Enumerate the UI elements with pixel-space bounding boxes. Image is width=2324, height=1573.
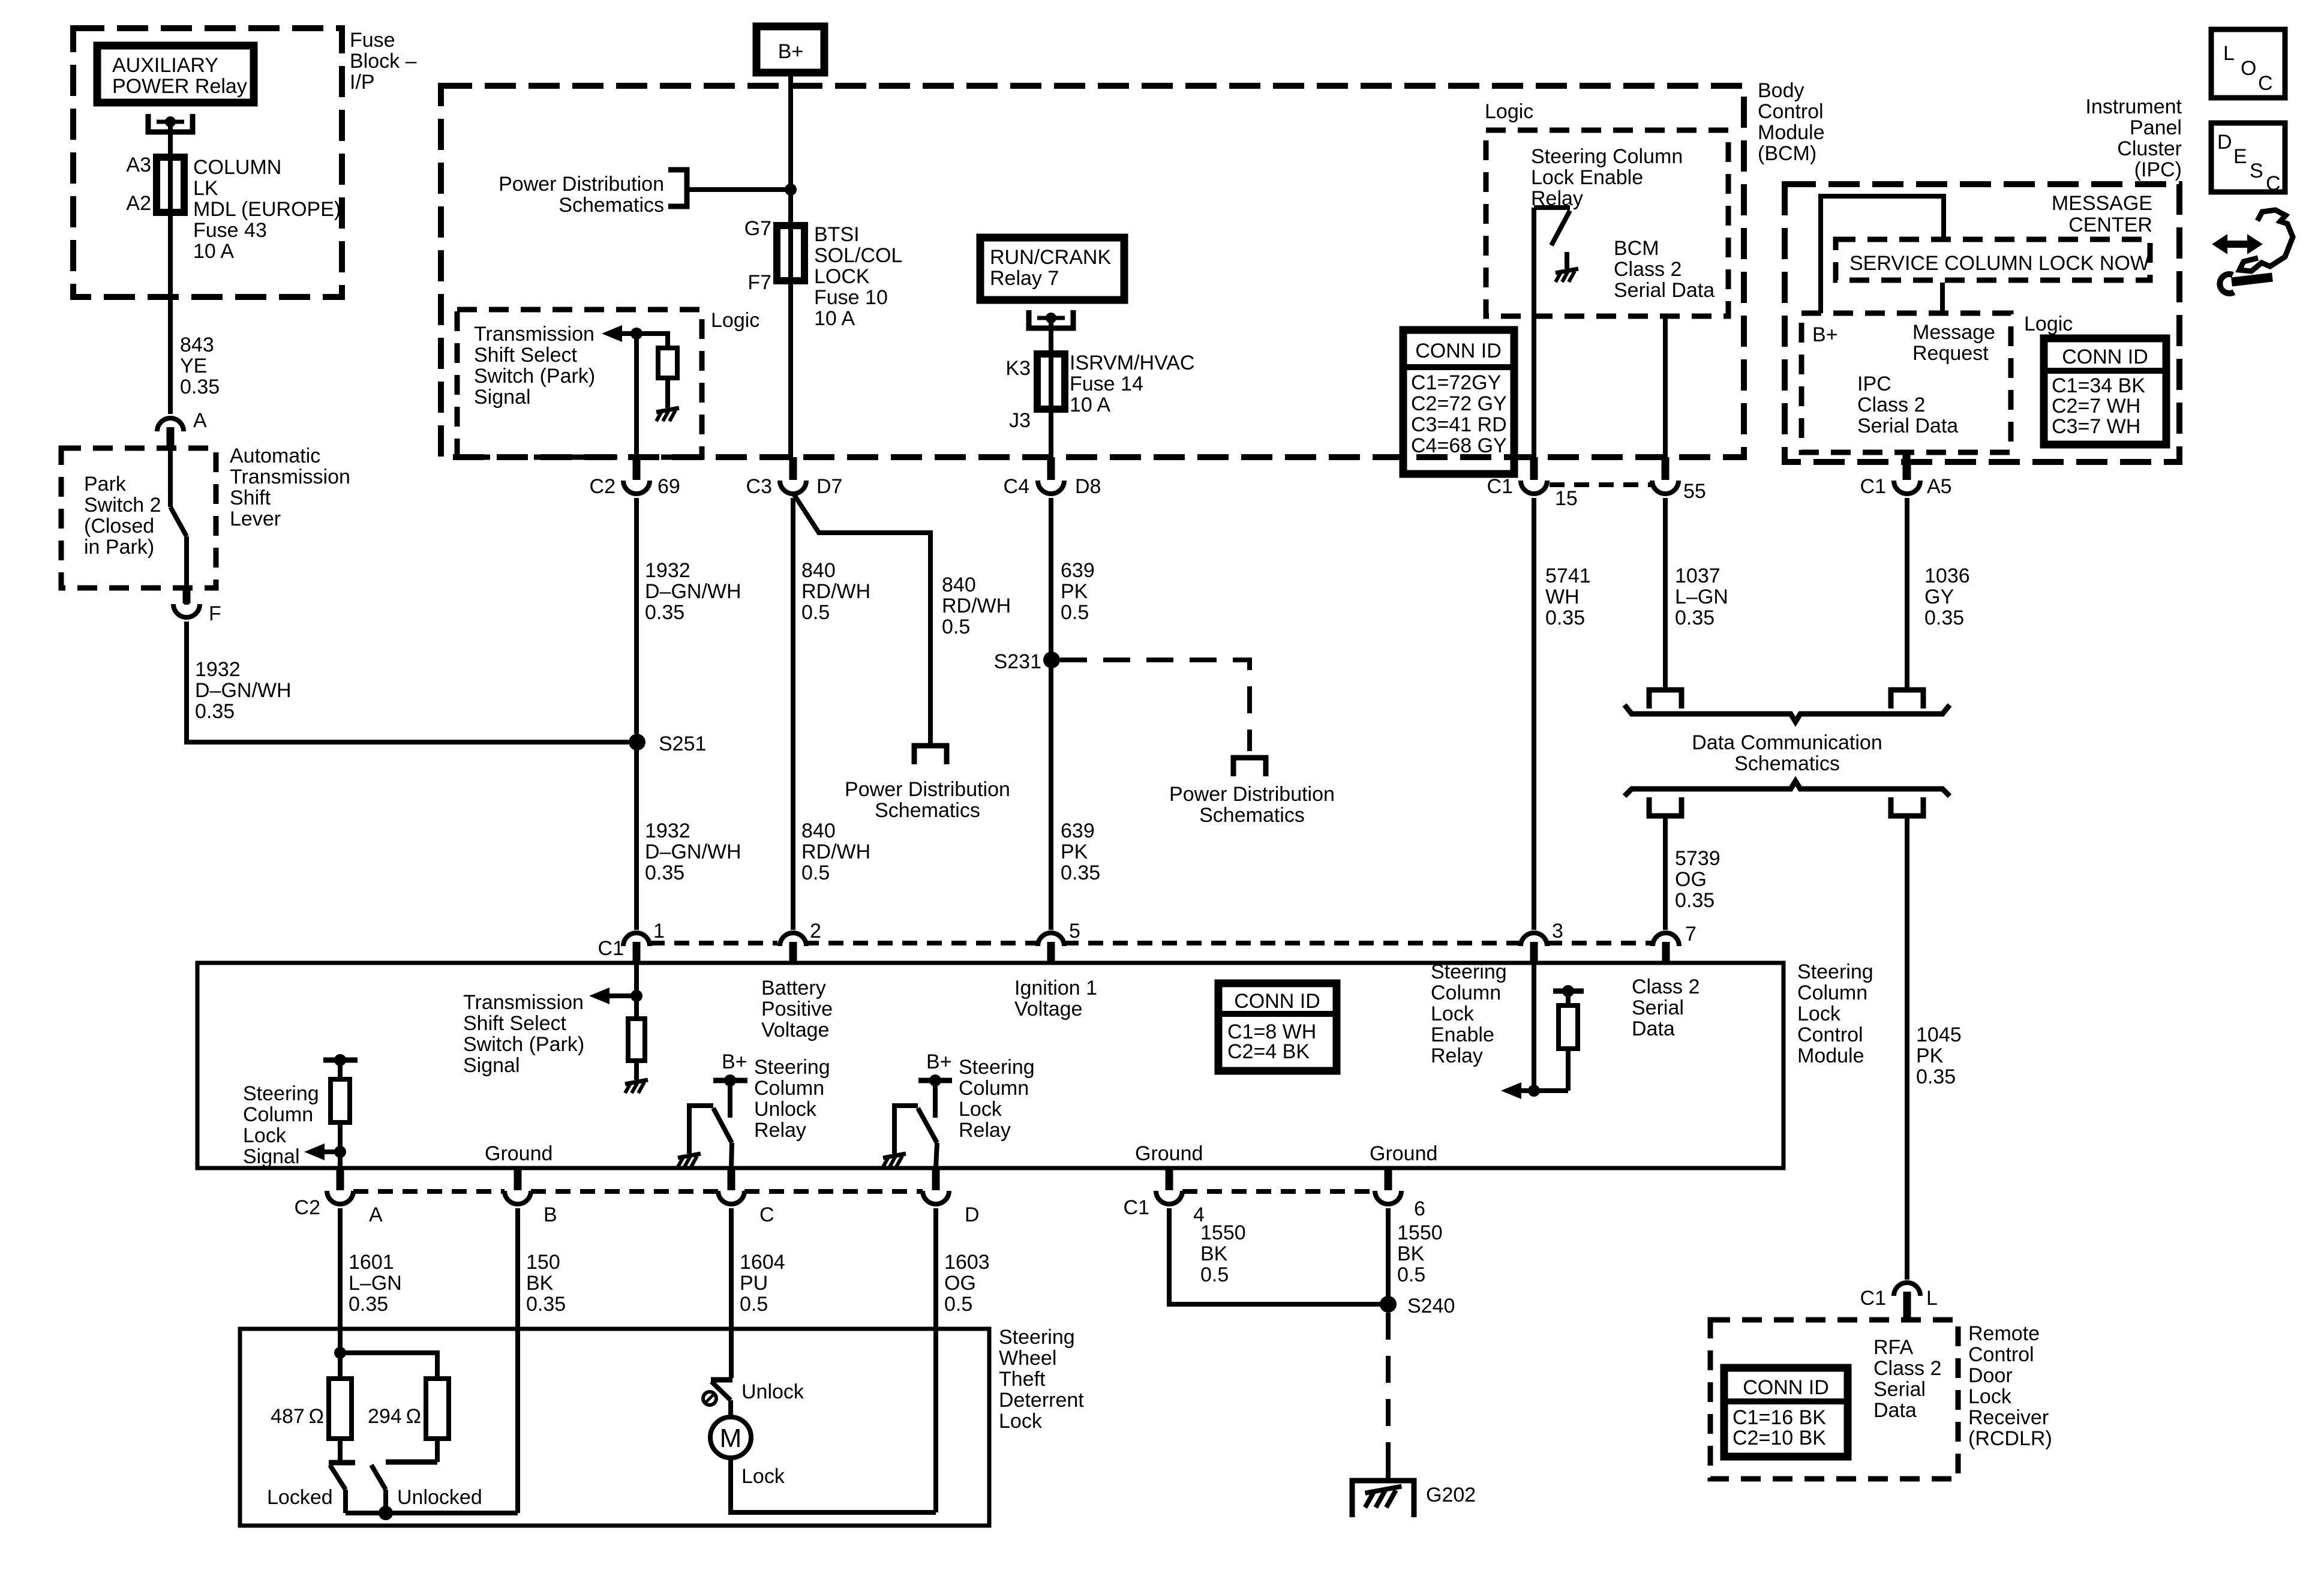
svg-text:POWER Relay: POWER Relay xyxy=(112,75,247,98)
svg-text:C1: C1 xyxy=(1124,1196,1149,1219)
svg-text:Relay 7: Relay 7 xyxy=(990,267,1059,290)
svg-text:C: C xyxy=(2258,72,2273,95)
svg-text:Logic: Logic xyxy=(711,309,759,332)
svg-text:1604: 1604 xyxy=(740,1251,785,1274)
wire resistor to pin A xyxy=(338,1122,343,1168)
svg-text:Class 2: Class 2 xyxy=(1873,1357,1941,1380)
svg-text:C3: C3 xyxy=(746,475,772,498)
svg-text:Switch (Park): Switch (Park) xyxy=(474,365,595,388)
wire 1932 D-GN/WH 0.35 (lower) xyxy=(634,742,639,930)
component box Steering Column Lock Control Module xyxy=(197,963,1783,1168)
svg-text:1550: 1550 xyxy=(1200,1221,1246,1244)
wire to module pull-up resistor xyxy=(634,996,639,1019)
svg-text:Unlocked: Unlocked xyxy=(397,1486,482,1509)
svg-text:Data Communication: Data Communication xyxy=(1692,731,1882,754)
svg-text:C2=7 WH: C2=7 WH xyxy=(2052,395,2140,418)
svg-text:C1=72GY: C1=72GY xyxy=(1411,371,1501,394)
svg-text:0.35: 0.35 xyxy=(526,1293,566,1316)
svg-text:C2=72 GY: C2=72 GY xyxy=(1411,392,1507,415)
svg-text:1037: 1037 xyxy=(1675,565,1721,587)
svg-text:(IPC): (IPC) xyxy=(2134,158,2182,181)
wire park switch to connector F xyxy=(184,536,189,605)
wire 150 BK 0.35 xyxy=(515,1208,520,1513)
svg-text:C: C xyxy=(759,1203,774,1226)
connector pair dash 15-55 xyxy=(1550,482,1651,487)
terminal 5739 from data communication xyxy=(1649,797,1682,816)
relay contact Steering Column Unlock Relay xyxy=(689,1106,713,1154)
svg-text:Serial Data: Serial Data xyxy=(1614,279,1715,302)
svg-text:PK: PK xyxy=(1061,580,1088,603)
svg-text:Request: Request xyxy=(1912,342,1989,365)
svg-text:Serial: Serial xyxy=(1632,996,1684,1019)
svg-text:PU: PU xyxy=(740,1272,768,1295)
svg-text:5741: 5741 xyxy=(1545,565,1591,587)
fixed contact unlocked xyxy=(386,1460,437,1465)
terminal 1045 from data communication xyxy=(1891,797,1923,816)
svg-text:69: 69 xyxy=(657,475,680,498)
symbol DESC box xyxy=(2211,123,2285,192)
symbol no-connect circle xyxy=(703,1392,716,1405)
svg-text:1932: 1932 xyxy=(645,819,690,842)
dashed wire S240 to G202 xyxy=(1386,1313,1391,1473)
svg-text:ISRVM/HVAC: ISRVM/HVAC xyxy=(1070,352,1194,374)
svg-text:S: S xyxy=(2250,160,2263,182)
resistor 487 ohm xyxy=(329,1379,352,1439)
svg-text:Theft: Theft xyxy=(999,1368,1046,1391)
svg-text:Relay: Relay xyxy=(1431,1044,1483,1067)
wire unlock relay to pin C xyxy=(731,1143,732,1168)
connector pin B xyxy=(514,1168,522,1190)
svg-text:Schematics: Schematics xyxy=(559,194,664,217)
connector C1 pin 1 xyxy=(623,933,650,946)
svg-text:LK: LK xyxy=(193,177,218,200)
ground unlock relay armature xyxy=(678,1154,701,1167)
ground BCM logic xyxy=(656,408,679,421)
svg-text:Steering: Steering xyxy=(959,1056,1035,1079)
svg-text:E: E xyxy=(2233,145,2247,168)
svg-text:0.35: 0.35 xyxy=(180,376,220,398)
svg-text:GY: GY xyxy=(1924,586,1954,608)
component box Steering Wheel Theft Deterrent Lock xyxy=(240,1329,989,1526)
svg-text:1: 1 xyxy=(653,920,665,942)
svg-text:BK: BK xyxy=(1397,1242,1425,1265)
svg-text:B+: B+ xyxy=(926,1050,952,1073)
svg-text:Steering Column: Steering Column xyxy=(1531,145,1683,168)
power node B+ unlock relay xyxy=(713,1078,747,1083)
wire resistor to ground xyxy=(665,378,670,408)
wire 1037 L-GN 0.35 xyxy=(1663,498,1668,690)
svg-text:Lock: Lock xyxy=(999,1410,1043,1433)
svg-text:Instrument: Instrument xyxy=(2085,95,2182,118)
svg-text:0.35: 0.35 xyxy=(1924,607,1964,629)
relay contact Steering Column Lock Relay xyxy=(894,1106,918,1154)
svg-text:OG: OG xyxy=(1675,868,1707,891)
node lock signal junction xyxy=(334,1146,346,1158)
wire 639 PK 0.5 xyxy=(1049,498,1053,930)
svg-text:IPC: IPC xyxy=(1857,373,1891,395)
svg-text:B+: B+ xyxy=(722,1050,747,1073)
svg-text:D8: D8 xyxy=(1075,475,1101,498)
component box Fuse Block - I/P (dashed) xyxy=(73,28,342,297)
svg-text:D7: D7 xyxy=(816,475,842,498)
svg-text:0.5: 0.5 xyxy=(944,1293,972,1316)
svg-text:LOCK: LOCK xyxy=(814,265,870,288)
svg-text:C1: C1 xyxy=(1860,475,1886,498)
svg-text:CENTER: CENTER xyxy=(2068,214,2152,236)
svg-text:Column: Column xyxy=(1797,981,1867,1004)
node S251 xyxy=(629,734,645,751)
svg-text:Shift Select: Shift Select xyxy=(474,344,578,367)
svg-text:Power Distribution: Power Distribution xyxy=(1169,783,1335,806)
terminal 1036 to data communication xyxy=(1891,690,1923,709)
node lock signal rail xyxy=(334,1054,346,1066)
svg-text:Logic: Logic xyxy=(1485,100,1533,123)
svg-text:C4=68 GY: C4=68 GY xyxy=(1411,434,1507,457)
svg-text:L–GN: L–GN xyxy=(349,1272,402,1295)
svg-text:A5: A5 xyxy=(1927,475,1952,498)
svg-text:Relay: Relay xyxy=(754,1119,806,1142)
component box RCDLR (dashed) xyxy=(1710,1320,1958,1479)
connector C4 pin D8 xyxy=(1047,457,1055,480)
svg-text:Control: Control xyxy=(1968,1343,2034,1366)
svg-text:Lock: Lock xyxy=(1431,1002,1475,1025)
svg-text:YE: YE xyxy=(180,355,207,377)
svg-text:Steering: Steering xyxy=(1797,960,1873,983)
svg-text:Remote: Remote xyxy=(1968,1322,2040,1345)
svg-text:C2=4 BK: C2=4 BK xyxy=(1227,1040,1310,1063)
connector pin D xyxy=(932,1168,940,1190)
component box Body Control Module BCM (dashed) xyxy=(441,86,1744,457)
fuse BTSI SOL/COL LOCK Fuse 10 10A xyxy=(777,226,804,281)
icon vehicle with wrench xyxy=(2213,210,2293,293)
wire junction to 294 branch xyxy=(340,1353,437,1379)
svg-text:Lever: Lever xyxy=(230,508,281,530)
svg-text:B: B xyxy=(544,1203,557,1226)
wire IPC serial data out xyxy=(1903,452,1911,480)
svg-text:7: 7 xyxy=(1685,923,1697,945)
wire B+ fixed contact (lock) xyxy=(933,1080,938,1118)
connector C2 pin A xyxy=(337,1168,344,1190)
svg-text:Class 2: Class 2 xyxy=(1632,975,1700,998)
connector pin 55 xyxy=(1662,457,1670,480)
switch blade Locked xyxy=(330,1465,346,1490)
wire 5739 OG 0.35 xyxy=(1663,816,1668,930)
wire junction to 487 resistor xyxy=(338,1353,343,1379)
svg-text:6: 6 xyxy=(1414,1197,1425,1220)
node S231 xyxy=(1043,652,1060,668)
svg-text:639: 639 xyxy=(1061,819,1095,842)
svg-text:SERVICE COLUMN LOCK NOW: SERVICE COLUMN LOCK NOW xyxy=(1849,252,2149,275)
svg-text:MESSAGE: MESSAGE xyxy=(2052,192,2152,215)
svg-text:0.5: 0.5 xyxy=(1200,1263,1229,1286)
svg-text:BCM: BCM xyxy=(1614,237,1659,260)
svg-text:Lock: Lock xyxy=(1968,1385,2012,1408)
svg-text:C2: C2 xyxy=(295,1196,320,1219)
wire to power distribution bracket xyxy=(687,187,791,192)
relay contact RUN/CRANK Relay 7 xyxy=(1029,310,1073,328)
fixed contact locked xyxy=(329,1460,355,1466)
svg-text:A: A xyxy=(369,1203,383,1226)
svg-text:Class 2: Class 2 xyxy=(1614,258,1682,281)
relay contact AUXILIARY POWER Relay xyxy=(148,114,193,132)
svg-text:C4: C4 xyxy=(1004,475,1029,498)
svg-text:Data: Data xyxy=(1632,1017,1675,1040)
switch blade Unlocked xyxy=(371,1465,386,1490)
component box BCM Logic (dashed) xyxy=(1486,130,1728,316)
svg-text:Transmission: Transmission xyxy=(463,991,584,1014)
svg-text:Power Distribution: Power Distribution xyxy=(845,778,1010,801)
motor M xyxy=(710,1417,751,1458)
node unlocked switch junction xyxy=(379,1506,393,1520)
wire switch to motor xyxy=(728,1400,733,1418)
svg-text:Column: Column xyxy=(1431,981,1501,1004)
svg-text:Unlock: Unlock xyxy=(754,1098,817,1121)
svg-text:RFA: RFA xyxy=(1873,1336,1913,1359)
svg-text:B+: B+ xyxy=(1812,323,1838,346)
wire 1550 BK 0.5 (pin 6) xyxy=(1386,1208,1391,1304)
svg-text:150: 150 xyxy=(526,1251,560,1274)
node transmission signal junction xyxy=(630,328,642,340)
svg-text:Lock: Lock xyxy=(1797,1002,1841,1025)
wire enable relay to connector C1 15 xyxy=(1532,208,1536,457)
svg-text:Shift: Shift xyxy=(230,487,271,509)
svg-text:2: 2 xyxy=(810,920,821,942)
svg-text:J3: J3 xyxy=(1009,409,1031,432)
svg-text:Schematics: Schematics xyxy=(875,799,980,822)
wire lock relay to pin D xyxy=(936,1143,937,1168)
rail bar lock signal xyxy=(323,1058,358,1063)
svg-text:0.35: 0.35 xyxy=(645,861,684,884)
brace data communication upper xyxy=(1625,705,1950,722)
svg-text:Transmission: Transmission xyxy=(230,466,350,488)
svg-text:MDL (EUROPE): MDL (EUROPE) xyxy=(193,198,341,221)
svg-text:Park: Park xyxy=(84,473,127,496)
relay K AUXILIARY POWER Relay label box xyxy=(97,46,254,103)
svg-text:1550: 1550 xyxy=(1397,1221,1443,1244)
connector C1 pin L xyxy=(1894,1283,1920,1296)
svg-text:10 A: 10 A xyxy=(193,240,234,263)
svg-text:1045: 1045 xyxy=(1916,1023,1962,1046)
svg-text:in Park): in Park) xyxy=(84,536,154,559)
svg-text:Column: Column xyxy=(754,1077,824,1100)
svg-text:Ground: Ground xyxy=(1135,1142,1203,1165)
connector pin 5 xyxy=(1038,933,1064,946)
svg-text:BK: BK xyxy=(526,1272,554,1295)
switch blade motor unlock xyxy=(711,1382,731,1400)
symbol LOC box xyxy=(2211,29,2285,98)
wire resistor to module ground xyxy=(634,1061,639,1080)
svg-text:1601: 1601 xyxy=(349,1251,394,1274)
svg-text:A3: A3 xyxy=(126,154,151,176)
svg-text:Control: Control xyxy=(1797,1023,1863,1046)
wire message request xyxy=(1940,283,1945,313)
connector row dash (module top) xyxy=(650,941,777,945)
ground lock relay armature xyxy=(883,1154,906,1167)
svg-text:Ground: Ground xyxy=(1370,1142,1437,1165)
node S240 xyxy=(1380,1296,1397,1313)
svg-text:M: M xyxy=(720,1424,742,1453)
resistor steering column lock signal xyxy=(331,1079,350,1122)
wire 1601 L-GN 0.35 xyxy=(338,1208,343,1353)
fuse F43 COLUMN LK MDL (EUROPE) Fuse 43 10A xyxy=(157,157,184,212)
svg-text:Lock: Lock xyxy=(243,1124,287,1147)
svg-text:Power Distribution: Power Distribution xyxy=(499,173,664,196)
svg-text:Fuse 10: Fuse 10 xyxy=(814,286,888,309)
ground module logic xyxy=(625,1080,648,1093)
svg-text:0.35: 0.35 xyxy=(1675,889,1715,912)
svg-text:F7: F7 xyxy=(747,271,771,294)
svg-text:Steering: Steering xyxy=(754,1056,830,1079)
brace data communication lower xyxy=(1625,781,1950,796)
svg-text:Lock Enable: Lock Enable xyxy=(1531,166,1643,189)
svg-text:BK: BK xyxy=(1200,1242,1228,1265)
resistor BCM park signal pull-up xyxy=(658,348,677,378)
ground enable relay contact xyxy=(1556,269,1578,282)
svg-text:Data: Data xyxy=(1873,1399,1917,1422)
svg-text:Unlock: Unlock xyxy=(741,1380,804,1403)
svg-text:0.5: 0.5 xyxy=(1397,1263,1425,1286)
ground G202 xyxy=(1386,1463,1391,1481)
svg-text:0.35: 0.35 xyxy=(645,601,684,624)
wire 1045 PK 0.35 xyxy=(1905,816,1909,1280)
svg-text:L: L xyxy=(1926,1287,1938,1310)
svg-text:Lock: Lock xyxy=(741,1465,785,1488)
wire 1932 D-GN/WH 0.35 to S251 xyxy=(187,622,629,742)
svg-text:Fuse 14: Fuse 14 xyxy=(1070,373,1143,395)
connector A xyxy=(157,418,184,431)
svg-text:10 A: 10 A xyxy=(1070,394,1110,416)
relay contact Steering Column Lock Enable Relay xyxy=(1534,205,1570,210)
svg-text:K3: K3 xyxy=(1005,357,1031,380)
svg-text:F: F xyxy=(209,602,221,625)
svg-text:Column: Column xyxy=(959,1077,1029,1100)
wire through BTSI fuse xyxy=(788,226,793,280)
svg-text:S231: S231 xyxy=(994,650,1041,673)
svg-text:Message: Message xyxy=(1912,321,1995,344)
svg-text:Transmission: Transmission xyxy=(474,323,594,346)
svg-text:C1=34 BK: C1=34 BK xyxy=(2052,374,2145,397)
wire aux relay to fuse 43 xyxy=(168,122,173,157)
svg-text:Positive: Positive xyxy=(761,998,833,1020)
wire 1603 OG 0.5 xyxy=(933,1208,938,1512)
svg-text:0.35: 0.35 xyxy=(349,1293,388,1316)
svg-text:Cluster: Cluster xyxy=(2117,137,2182,160)
svg-text:840: 840 xyxy=(801,819,836,842)
wire 840 RD/WH 0.5 xyxy=(791,498,795,930)
svg-text:0.5: 0.5 xyxy=(942,616,970,638)
wire 843 YE 0.35 xyxy=(168,212,173,414)
svg-text:0.35: 0.35 xyxy=(1061,861,1100,884)
wire 1550 BK 0.5 (pin 4) xyxy=(1169,1208,1388,1304)
table CONN ID (IPC) xyxy=(2044,338,2166,445)
connector C1 pin 4 xyxy=(1166,1168,1173,1190)
svg-text:Lock: Lock xyxy=(959,1098,1002,1121)
relay RUN/CRANK Relay 7 label box xyxy=(980,238,1124,300)
svg-text:WH: WH xyxy=(1545,586,1580,608)
svg-text:I/P: I/P xyxy=(350,71,375,94)
wire resistor down (enable) xyxy=(1566,1049,1571,1091)
svg-text:Ground: Ground xyxy=(485,1142,553,1165)
svg-text:Steering: Steering xyxy=(243,1082,319,1105)
node enable relay junction xyxy=(1528,1085,1540,1097)
svg-text:Module: Module xyxy=(1758,121,1825,144)
svg-text:D: D xyxy=(2217,131,2232,154)
arrow steering column lock signal xyxy=(304,1143,325,1160)
svg-text:0.5: 0.5 xyxy=(740,1293,768,1316)
connector pin C xyxy=(728,1168,735,1190)
svg-text:Receiver: Receiver xyxy=(1968,1406,2049,1429)
wire into park switch xyxy=(168,448,173,507)
svg-text:Voltage: Voltage xyxy=(1014,998,1082,1020)
wire B+ fixed contact xyxy=(728,1080,732,1118)
wire B+ to message center xyxy=(1821,196,1944,313)
svg-text:OG: OG xyxy=(944,1272,976,1295)
wire B+ feed down xyxy=(788,73,793,226)
svg-text:Module: Module xyxy=(1797,1044,1864,1067)
svg-text:CONN ID: CONN ID xyxy=(2062,346,2148,368)
connector pin 7 xyxy=(1653,933,1679,946)
svg-text:0.35: 0.35 xyxy=(195,700,235,723)
svg-text:C1: C1 xyxy=(1860,1287,1886,1310)
svg-text:Door: Door xyxy=(1968,1364,2013,1387)
svg-text:C3=41 RD: C3=41 RD xyxy=(1411,413,1507,436)
svg-text:Voltage: Voltage xyxy=(761,1019,829,1041)
wire to pull-up resistor xyxy=(636,334,668,348)
svg-text:Shift Select: Shift Select xyxy=(463,1012,567,1035)
svg-text:Fuse: Fuse xyxy=(350,29,395,52)
svg-text:5: 5 xyxy=(1069,920,1080,942)
svg-text:Relay: Relay xyxy=(959,1119,1011,1142)
svg-text:D: D xyxy=(965,1203,980,1226)
svg-text:Ignition 1: Ignition 1 xyxy=(1014,977,1097,999)
svg-text:L–GN: L–GN xyxy=(1675,586,1728,608)
svg-text:843: 843 xyxy=(180,334,214,356)
svg-text:639: 639 xyxy=(1061,559,1095,582)
power node B+ lock relay xyxy=(918,1078,952,1083)
svg-text:3: 3 xyxy=(1552,920,1563,942)
connector C1 pin 15 xyxy=(1530,457,1538,480)
node power distribution tap xyxy=(785,184,797,196)
component box Instrument Panel Cluster IPC (dashed) xyxy=(1785,184,2179,462)
svg-text:0.35: 0.35 xyxy=(1675,607,1715,629)
svg-text:840: 840 xyxy=(942,574,976,596)
svg-text:294 Ω: 294 Ω xyxy=(368,1405,421,1428)
svg-text:(Closed: (Closed xyxy=(84,515,154,538)
component box IPC logic (dashed) xyxy=(1801,313,2011,452)
svg-text:C: C xyxy=(2266,172,2281,195)
svg-text:0.35: 0.35 xyxy=(1545,607,1585,629)
svg-text:C1: C1 xyxy=(1487,475,1513,498)
svg-text:D–GN/WH: D–GN/WH xyxy=(645,580,741,603)
svg-text:Control: Control xyxy=(1758,100,1824,123)
svg-text:RD/WH: RD/WH xyxy=(801,580,870,603)
svg-text:Signal: Signal xyxy=(463,1054,520,1077)
wire 1932 inside BCM to connector C2 69 xyxy=(634,334,639,457)
svg-text:487 Ω: 487 Ω xyxy=(271,1405,324,1428)
wire motor to pin D xyxy=(731,1458,936,1512)
off-page bracket power distribution xyxy=(668,170,687,206)
connector C3 pin D7 xyxy=(789,457,797,480)
switch blade Park Switch 2 xyxy=(170,507,187,536)
svg-text:CONN ID: CONN ID xyxy=(1743,1376,1829,1399)
resistor module park signal xyxy=(628,1019,645,1061)
wire rail to resistor xyxy=(338,1060,343,1079)
svg-text:SOL/COL: SOL/COL xyxy=(814,244,902,267)
table CONN ID (BCM) xyxy=(1403,330,1514,474)
wire pin 1 internal xyxy=(634,963,639,996)
svg-text:55: 55 xyxy=(1683,480,1706,503)
svg-text:Signal: Signal xyxy=(243,1145,300,1168)
